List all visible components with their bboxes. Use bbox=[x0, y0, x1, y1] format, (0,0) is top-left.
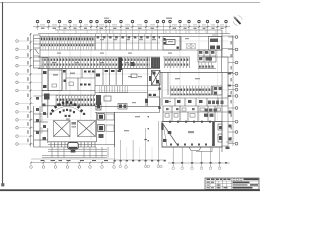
room label smudges bbox=[52, 38, 202, 131]
arc inner marks bbox=[50, 109, 85, 120]
top dimension text dashes bbox=[41, 28, 224, 29]
hall dotted column line bbox=[148, 116, 149, 141]
hall bottom wall bbox=[162, 146, 222, 148]
title block row 4 text bbox=[233, 187, 253, 189]
bottom-right axis bubbles bbox=[172, 167, 221, 170]
second comb band (small rooms row) bbox=[42, 58, 150, 69]
bottom-left bubble stems bbox=[31, 163, 126, 166]
core comb band bbox=[99, 86, 128, 93]
right block toilet band bbox=[163, 106, 228, 122]
bottom-right dimension line bbox=[168, 162, 230, 164]
right wing lower rooms bbox=[163, 98, 228, 106]
left dimension ticks bbox=[30, 33, 32, 145]
top dimension line bbox=[33, 26, 230, 28]
title block grid lines bbox=[205, 180, 259, 182]
faint structural grid horizontals bbox=[34, 41, 228, 120]
top-right terrace bbox=[212, 35, 233, 57]
left wing room fixtures bbox=[43, 70, 95, 88]
lecture hall mid-left blob bbox=[168, 131, 172, 134]
title block row 2 text bbox=[233, 182, 250, 184]
right block toilet fixtures bbox=[165, 108, 221, 117]
top-right dense room cluster bbox=[198, 36, 222, 73]
atrium left furniture bbox=[43, 104, 46, 107]
right wing comb band bbox=[170, 86, 212, 96]
right wall window dashes bbox=[228, 73, 232, 141]
bottom-left dimension line 1 bbox=[31, 158, 114, 160]
lift X marks top-right bbox=[187, 44, 196, 49]
top dimension ticks bbox=[37, 26, 228, 28]
left wing room labels bbox=[53, 74, 58, 76]
core stair lower bbox=[96, 95, 101, 105]
right axis ticks bbox=[228, 37, 235, 144]
ward band mid divider bbox=[40, 43, 95, 45]
bottom-centre dimension line bbox=[114, 159, 166, 161]
title block top text band bbox=[207, 179, 231, 180]
left border end blob bbox=[1, 183, 4, 186]
entrance band windows bbox=[34, 142, 115, 147]
stage corner marks bbox=[163, 139, 167, 142]
ward band right room 2 bbox=[209, 37, 223, 51]
core dark block (stair) bbox=[119, 58, 123, 71]
top axis bubbles bbox=[36, 20, 227, 22]
title block bbox=[205, 178, 259, 189]
elevator shafts bbox=[96, 112, 98, 142]
north arrow symbol bbox=[233, 16, 242, 26]
axis names text smudges above top dimension line bbox=[40, 18, 224, 26]
sheet left border bbox=[2, 2, 4, 184]
entrance steps bbox=[42, 147, 108, 158]
lecture hall interior dark bar bbox=[212, 122, 215, 146]
title block row 3 text bbox=[233, 184, 248, 186]
lobby front mullions bbox=[115, 121, 159, 165]
left axis bubbles bbox=[16, 40, 19, 146]
lecture hall right wall details bbox=[218, 124, 222, 130]
left wing rooms bbox=[42, 58, 95, 96]
bottom-right dimension verticals bbox=[173, 147, 219, 167]
left axis stems bbox=[19, 41, 42, 144]
centre top fixtures bbox=[96, 103, 101, 110]
ward band right room 1 bbox=[163, 37, 180, 51]
right bottom step edge bbox=[222, 106, 233, 146]
left dimension text dashes bbox=[27, 37, 28, 142]
right comb band b bbox=[198, 62, 214, 69]
faint structural grid verticals bbox=[49, 33, 218, 145]
top wall window ticks bbox=[58, 30, 216, 34]
right axis bubbles bbox=[235, 36, 238, 145]
right wing lower room fixtures bbox=[165, 100, 224, 104]
ward band centre rooms bbox=[95, 34, 160, 50]
revolving door bbox=[68, 142, 78, 149]
ward band comb left (toilets row) bbox=[40, 36, 95, 50]
stair block dark bbox=[151, 58, 160, 69]
bottom-left dimension line 2 bbox=[31, 162, 114, 164]
corridor walls bbox=[38, 56, 228, 58]
escalator X block bbox=[152, 71, 161, 86]
reception arc seats bbox=[51, 101, 83, 113]
stage apron bbox=[189, 147, 201, 151]
reception arc line bbox=[52, 107, 83, 114]
central core rooms bbox=[95, 57, 160, 112]
atrium left rooms bbox=[34, 98, 48, 147]
sheet bottom border bar bbox=[0, 189, 260, 191]
bottom-centre axis bubbles bbox=[119, 165, 162, 167]
atrium X brace left bbox=[54, 121, 71, 137]
top axis stems bbox=[38, 23, 227, 33]
band bottom wall bbox=[38, 68, 160, 70]
core small marks bbox=[96, 74, 100, 77]
right wing bounding walls bbox=[162, 73, 222, 107]
lecture hall label bbox=[188, 131, 194, 133]
right dimension text dashes bbox=[231, 41, 232, 140]
lecture hall diagonal bbox=[163, 124, 178, 146]
left dimension line bbox=[30, 33, 32, 147]
lecture hall top wall column dots bbox=[169, 121, 211, 123]
right comb band a bbox=[164, 58, 191, 69]
atrium centre label bbox=[72, 122, 77, 125]
bottom-left dimension text dashes bbox=[41, 160, 109, 161]
lecture hall seats dots bbox=[170, 144, 214, 146]
right wing lift cells bbox=[213, 86, 222, 95]
sheet top border bbox=[0, 2, 260, 4]
lecture hall bbox=[162, 122, 222, 148]
top ward band outline bbox=[38, 30, 230, 57]
bottom-left axis bubbles bbox=[30, 166, 128, 169]
left wing comb band 3 bbox=[55, 95, 95, 106]
atrium X brace right bbox=[78, 121, 96, 137]
right axis line bbox=[232, 35, 234, 146]
left stair cell column bbox=[34, 35, 41, 68]
centre top rooms bbox=[95, 98, 160, 113]
hall left wall bbox=[114, 112, 116, 147]
lecture hall door bar bbox=[161, 123, 163, 130]
core cell top fixtures bbox=[105, 70, 161, 109]
